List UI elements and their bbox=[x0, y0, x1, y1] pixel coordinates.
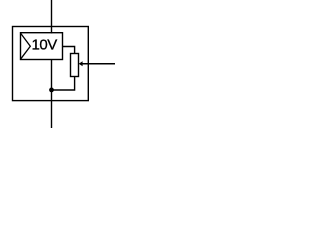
wire: resistor bottom to junction bbox=[52, 77, 75, 91]
wire: source bottom lead bbox=[51, 60, 53, 129]
enclosure box bbox=[13, 27, 89, 101]
voltage source arrow glyph bbox=[21, 34, 30, 59]
svg-text:10V: 10V bbox=[32, 36, 58, 53]
voltage source V1 box bbox=[21, 33, 63, 60]
wire: source output to resistor top bbox=[63, 47, 75, 54]
resistor R1 bbox=[71, 54, 79, 77]
control arrow shaft bbox=[82, 63, 115, 65]
junction node bbox=[49, 88, 54, 93]
wire: top supply lead bbox=[51, 0, 53, 33]
control arrow head bbox=[79, 61, 83, 66]
